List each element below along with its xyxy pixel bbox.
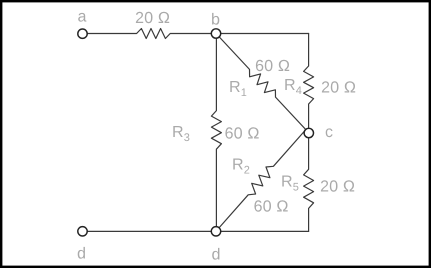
resistor R3 <box>211 38 221 226</box>
wire d-left to d <box>87 230 212 232</box>
ref R5 <box>282 176 298 191</box>
node c <box>304 128 313 137</box>
label a <box>78 13 86 22</box>
label c <box>326 128 333 137</box>
value 20 ohm R5 <box>321 180 354 191</box>
ref R3 <box>173 126 189 141</box>
resistor R2 (d to c diagonal) <box>219 130 306 228</box>
label d node <box>212 248 219 260</box>
ref R4 <box>285 79 301 94</box>
ref R1 <box>230 81 246 96</box>
label b <box>212 13 219 25</box>
terminal d left <box>78 227 87 236</box>
resistor R4 <box>304 34 314 129</box>
resistor 20ohm top (a to b) <box>87 29 212 39</box>
node b <box>211 29 220 38</box>
value 60 ohm R2 <box>254 200 287 211</box>
value 20 ohm R4 <box>322 81 355 92</box>
value 20 ohm top <box>136 12 169 23</box>
resistor R5 <box>304 138 314 232</box>
value 60 ohm R3 <box>225 127 258 138</box>
wire b to top-right corner <box>221 33 309 35</box>
label d left <box>78 247 85 259</box>
terminal a <box>78 29 87 38</box>
wire d to bottom-right corner <box>221 230 309 232</box>
node d <box>211 227 220 236</box>
value 60 ohm R1 <box>256 60 289 71</box>
ref R2 <box>233 159 249 174</box>
resistor R1 (b to c diagonal) <box>219 37 306 130</box>
